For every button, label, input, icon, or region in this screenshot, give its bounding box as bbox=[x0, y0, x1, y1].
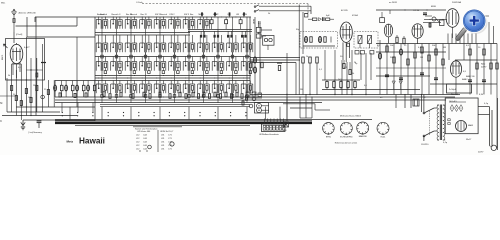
cathode resistor R15 bbox=[343, 60, 351, 75]
tube EC92 V3 bbox=[380, 12, 393, 43]
svg-text:EF80: EF80 bbox=[326, 136, 332, 138]
tuned circuit L9d row4 bbox=[212, 81, 224, 98]
svg-text:EF80: EF80 bbox=[431, 6, 437, 8]
label UKW rotated bbox=[254, 19, 256, 24]
tuned circuit L10d row4 bbox=[227, 81, 239, 98]
title Metz Hawaii bbox=[67, 137, 105, 146]
svg-text:KW: KW bbox=[214, 14, 217, 16]
label ECC85 bbox=[341, 10, 349, 12]
svg-text:I.ZF-Kreis 460: I.ZF-Kreis 460 bbox=[137, 130, 151, 133]
label C-Dreh bbox=[136, 1, 144, 4]
switch contact dots row1 bbox=[62, 112, 247, 113]
rectifier box bbox=[445, 98, 478, 134]
svg-text:Metz: Metz bbox=[67, 140, 74, 144]
tuned circuit L11c row3 bbox=[241, 57, 253, 74]
label germany bbox=[28, 130, 43, 134]
socket EL41 bottom view bbox=[377, 122, 389, 138]
svg-text:N.K.A.5: N.K.A.5 bbox=[450, 100, 458, 103]
right hor wires bbox=[376, 44, 497, 85]
tuned circuit L5d row4 bbox=[154, 81, 166, 98]
right vertical columns bbox=[380, 40, 497, 148]
svg-text:EL41: EL41 bbox=[381, 137, 387, 139]
svg-text:W2s: W2s bbox=[1, 2, 5, 4]
svg-text:EABC 80: EABC 80 bbox=[466, 75, 475, 78]
svg-text:UKW: UKW bbox=[242, 14, 247, 16]
array bottom component cluster bbox=[103, 92, 256, 108]
ukw switch contacts bbox=[254, 5, 311, 14]
labels mid right bbox=[338, 57, 475, 81]
tuned circuit L1c row3 bbox=[96, 57, 108, 74]
svg-text:2M: 2M bbox=[300, 89, 303, 91]
svg-text:EABC80: EABC80 bbox=[359, 135, 368, 138]
svg-text:Sockel und Trimmerplan: Sockel und Trimmerplan bbox=[135, 128, 158, 131]
tube EF80 V4 bbox=[412, 24, 423, 44]
tuned circuit L7c row3 bbox=[183, 57, 195, 74]
tuned circuit L9b row2 bbox=[212, 35, 224, 58]
svg-text:203/203A: 203/203A bbox=[452, 1, 462, 4]
tuned circuit L8a row1 bbox=[198, 17, 210, 29]
magnifier icon bbox=[455, 9, 488, 41]
C-Dreh linkage dashed bbox=[142, 4, 308, 14]
junction dots bus97 bbox=[105, 96, 237, 97]
agc bus bbox=[250, 94, 460, 95]
mid vertical wires bbox=[255, 17, 371, 121]
cap C5 bbox=[37, 121, 42, 128]
ukw filter box bbox=[263, 36, 274, 51]
tuned circuit L6c row3 bbox=[169, 57, 181, 74]
label EF80 bbox=[414, 6, 437, 12]
tuner top bus bbox=[35, 17, 250, 22]
mains switch S1 bbox=[421, 108, 437, 146]
pickup arrow bbox=[4, 44, 8, 48]
svg-text:Ws17: Ws17 bbox=[466, 139, 472, 141]
tuned circuit L3b row2 bbox=[125, 35, 137, 58]
terminal strip TB1 bbox=[262, 119, 286, 132]
padder C9a row1 bbox=[210, 17, 213, 29]
if transformer T2 dashed bbox=[354, 32, 378, 49]
diode row mid top bbox=[305, 14, 335, 22]
left margin mark MW bbox=[0, 102, 2, 105]
wires under magnifier bbox=[448, 16, 494, 44]
tuned circuit L9c row3 bbox=[212, 57, 224, 74]
svg-text:1M: 1M bbox=[443, 47, 446, 49]
row D left extension bbox=[54, 81, 96, 98]
tuned circuit L10c row3 bbox=[227, 57, 239, 74]
svg-text:an 203/1: an 203/1 bbox=[389, 2, 398, 4]
svg-text:ECC85: ECC85 bbox=[341, 10, 349, 12]
wires strip region bbox=[283, 97, 330, 121]
tuned circuit L2c row3 bbox=[111, 57, 123, 74]
resistors between tubes bbox=[396, 35, 405, 44]
svg-text:Antenne UKW 240: Antenne UKW 240 bbox=[19, 11, 37, 14]
svg-text:220V~: 220V~ bbox=[481, 67, 488, 69]
tuned circuit L5b row2 bbox=[154, 35, 166, 58]
dark pads under right bus bbox=[200, 31, 247, 37]
tube ECH81 V5 bbox=[446, 9, 459, 38]
tuned circuit L8d row4 bbox=[198, 81, 210, 98]
diodes D1 D2 bbox=[392, 81, 402, 90]
svg-text:4AB5: 4AB5 bbox=[468, 124, 474, 127]
label Ch6 bbox=[16, 34, 23, 36]
svg-text:Bereich: Bereich bbox=[130, 13, 138, 16]
svg-text:Bereich: Bereich bbox=[100, 13, 108, 16]
tuned circuit L7a row1 bbox=[183, 17, 195, 29]
tuned circuit L2a row1 bbox=[111, 17, 123, 29]
label antenna bbox=[19, 11, 37, 14]
tuned circuit L1b row2 bbox=[96, 35, 108, 58]
electrolytic box bbox=[447, 84, 472, 93]
left vertical wires bbox=[0, 37, 95, 120]
mid resistor row R20-24 bbox=[322, 80, 420, 90]
long verticals 299 303 bbox=[299, 5, 303, 96]
tuned circuit L3d row4 bbox=[125, 81, 137, 98]
coil L30 bbox=[253, 57, 263, 73]
ortstaste cluster bbox=[246, 92, 262, 98]
output transformer small bbox=[396, 95, 419, 109]
svg-text:Bereich: Bereich bbox=[160, 13, 168, 16]
svg-text:[Ch=6]: [Ch=6] bbox=[16, 34, 23, 36]
label EM71 rotated bbox=[2, 54, 4, 60]
padder C11a row1 bbox=[239, 17, 242, 29]
array lower buses bbox=[55, 97, 455, 107]
svg-text:220V~: 220V~ bbox=[478, 152, 485, 154]
svg-text:EABC: EABC bbox=[462, 78, 468, 81]
socket ECH81 bottom view bbox=[340, 122, 353, 138]
svg-text:M: M bbox=[0, 102, 2, 105]
phono jack box bbox=[246, 92, 270, 114]
ground left bbox=[21, 120, 25, 130]
label 203 203A bbox=[452, 1, 462, 4]
tuned circuit L3c row3 bbox=[125, 57, 137, 74]
left frame vertical bbox=[35, 17, 37, 116]
svg-text:Bereich II: Bereich II bbox=[112, 13, 121, 16]
tuned circuit L8c row3 bbox=[198, 57, 210, 74]
svg-text:110/220: 110/220 bbox=[421, 144, 429, 146]
svg-text:Hawaii: Hawaii bbox=[79, 137, 105, 146]
tuned circuit L6d row4 bbox=[169, 81, 181, 98]
left margin mark KW bbox=[0, 120, 2, 123]
top trimmer caps right bbox=[201, 12, 245, 17]
tuned circuit L6a row1 bbox=[169, 17, 181, 29]
tuned circuit L3a row1 bbox=[125, 17, 137, 29]
svg-text:KW 2: KW 2 bbox=[170, 14, 176, 16]
label V1 bbox=[24, 46, 30, 49]
ukw unit outline box bbox=[6, 39, 45, 81]
svg-text:2×50µF: 2×50µF bbox=[449, 88, 457, 91]
tuned circuit L2b row2 bbox=[111, 35, 123, 58]
transformer TR1 bbox=[437, 105, 445, 141]
wires to socket region bbox=[299, 94, 312, 118]
svg-text:Ber.: Ber. bbox=[190, 13, 194, 16]
left tiny labels bbox=[8, 67, 47, 99]
label 470k bbox=[352, 15, 359, 17]
drops to chassis bus bbox=[62, 103, 280, 120]
ukw input boxes bbox=[256, 21, 272, 38]
array top labels bbox=[97, 13, 247, 16]
svg-text:Netz: Netz bbox=[481, 63, 485, 66]
svg-text:UKW-Teil 10,7: UKW-Teil 10,7 bbox=[160, 131, 174, 133]
label terminal strip bbox=[259, 133, 280, 136]
tuned circuit L1a row1 bbox=[96, 17, 108, 29]
label an 203-1 bbox=[389, 2, 398, 4]
tuned circuit L10b row2 bbox=[227, 35, 239, 58]
tuned circuit L5a row1 bbox=[154, 17, 166, 29]
selenium diodes bbox=[449, 100, 466, 112]
svg-text:Netzteil: Netzteil bbox=[451, 93, 458, 96]
svg-text:6,3V: 6,3V bbox=[479, 94, 484, 96]
caps under T2 bbox=[355, 51, 374, 55]
junction box X bbox=[283, 122, 289, 132]
socket EF80 bottom view bbox=[323, 123, 335, 139]
svg-text:470kΩ: 470kΩ bbox=[352, 15, 359, 17]
label netz bbox=[481, 63, 488, 69]
tuned circuit L6b row2 bbox=[169, 35, 181, 58]
if transformer T1 dashed bbox=[300, 32, 337, 49]
array bus junction dots bbox=[98, 16, 251, 78]
tuned circuit L4b row2 bbox=[140, 35, 152, 58]
chassis heavy bus bbox=[55, 120, 372, 126]
svg-text:C-Dreh: C-Dreh bbox=[136, 1, 144, 4]
socket EABC80 bottom view bbox=[357, 122, 369, 138]
array column shafts bbox=[102, 17, 247, 103]
svg-text:UKW-Anschlussleiste: UKW-Anschlussleiste bbox=[259, 133, 280, 136]
switch contact dots row2 bbox=[62, 115, 247, 116]
sprinkled value labels bbox=[100, 13, 484, 99]
tuned circuit L4d row4 bbox=[140, 81, 152, 98]
tube EAA91 V1 bbox=[10, 43, 23, 78]
tuned circuit L1d row4 bbox=[96, 81, 108, 98]
tube EABC80 V6 bbox=[450, 61, 461, 95]
right column components bbox=[378, 46, 498, 82]
svg-text:EM71: EM71 bbox=[2, 54, 4, 60]
tuned circuit L5c row3 bbox=[154, 57, 166, 74]
tuned circuit L8b row2 bbox=[198, 35, 210, 58]
tuned circuit L7d row4 bbox=[183, 81, 195, 98]
tube ECC85 V2 bbox=[340, 22, 352, 62]
svg-text:6,AZ7: 6,AZ7 bbox=[24, 46, 30, 49]
alignment table bbox=[133, 127, 182, 152]
tuned circuit L4c row3 bbox=[140, 57, 152, 74]
svg-text:2M: 2M bbox=[33, 85, 36, 87]
svg-text:EF 80: EF 80 bbox=[414, 10, 420, 12]
array hor buses bbox=[95, 17, 252, 121]
svg-text:Mehranschluss 2262/4: Mehranschluss 2262/4 bbox=[340, 115, 362, 118]
top wire right bbox=[376, 9, 446, 14]
svg-text:MW 1: MW 1 bbox=[199, 14, 205, 16]
tuned circuit L2d row4 bbox=[111, 81, 123, 98]
tuned circuit L4a row1 bbox=[140, 17, 152, 29]
mains cord bbox=[443, 98, 498, 154]
svg-text:1M: 1M bbox=[420, 57, 423, 59]
svg-text:ECH81/EF80: ECH81/EF80 bbox=[340, 137, 353, 139]
tube EZ80 V7 bbox=[456, 121, 474, 132]
padder C10a row1 bbox=[225, 17, 228, 29]
label roehrensockel bbox=[335, 142, 358, 145]
svg-text:LW: LW bbox=[236, 14, 239, 16]
tuned circuit L7b row2 bbox=[183, 35, 195, 58]
svg-text:Röhrensockel von unten: Röhrensockel von unten bbox=[335, 142, 358, 145]
corner label bbox=[1, 2, 5, 4]
tuned circuit L11b row2 bbox=[241, 35, 253, 58]
left small components bbox=[11, 63, 50, 117]
coupling caps right top bbox=[423, 13, 447, 28]
power verticals bbox=[404, 94, 424, 141]
wire antenna-tuner bbox=[14, 17, 95, 43]
mid resistors R10-R12 bbox=[250, 57, 318, 71]
tuned circuit L11d row4 bbox=[241, 81, 253, 98]
label mehranschluss bbox=[340, 115, 362, 118]
antenna bbox=[11, 9, 16, 32]
svg-text:Ber. IV: Ber. IV bbox=[141, 13, 148, 16]
svg-text:1M: 1M bbox=[28, 97, 31, 99]
svg-text:LW: LW bbox=[228, 14, 231, 16]
